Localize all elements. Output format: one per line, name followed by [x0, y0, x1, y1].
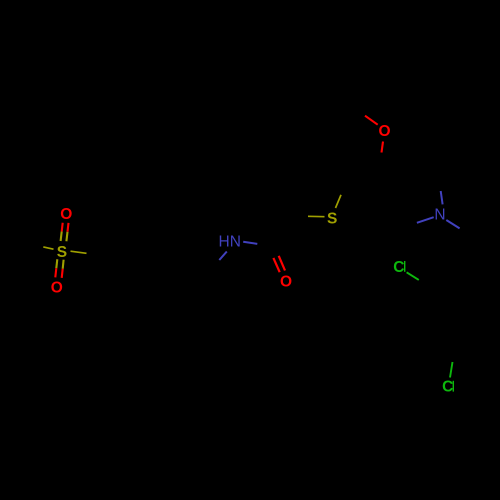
svg-text:S: S — [57, 244, 67, 261]
bond N2 up (blue half) — [441, 191, 443, 204]
svg-text:O: O — [280, 273, 292, 290]
bond Cl2-C (green half, up) — [450, 362, 453, 378]
svg-text:C: C — [393, 259, 404, 276]
bond S2-CH2 (olive half, horizontal) — [308, 215, 325, 217]
bond O4-C ring (red half, down) — [382, 142, 384, 153]
svg-text:C: C — [442, 379, 453, 396]
svg-text:O: O — [379, 123, 391, 140]
bond N2 down-left (blue half) — [417, 217, 434, 223]
atom Cl2 l stem — [452, 381, 454, 392]
svg-text:N: N — [434, 206, 445, 223]
bond S2-C ring (olive half, up-right) — [336, 195, 342, 208]
double bond S1=O2 line 1 olive half — [56, 259, 57, 268]
bond O4-CH3 (red half, up-left) — [365, 116, 378, 125]
double bond S1=O1 line 1 red half — [62, 223, 63, 232]
double bond S1=O2 line 2 red half — [62, 269, 63, 278]
double bond C=O3 line 2 red half — [279, 256, 285, 271]
svg-text:O: O — [60, 206, 72, 223]
bond Cl1-C (green half, down-right) — [407, 272, 419, 280]
bond N1-CH2 benzyl (blue half) — [219, 252, 227, 261]
double bond S1=O1 line 2 olive half — [66, 232, 67, 242]
double bond S1=O2 line 2 olive half — [62, 260, 65, 269]
double bond S1=O2 line 1 red half — [55, 268, 56, 277]
bond N2 down-right (blue half) — [446, 220, 459, 228]
bond S1-CH3 (methyl, olive half) — [43, 247, 53, 249]
svg-text:HN: HN — [219, 233, 241, 250]
svg-text:O: O — [51, 279, 63, 296]
atom Cl1 l stem — [404, 261, 406, 272]
double bond C=O3 line 1 red half — [273, 258, 279, 272]
double bond S1=O1 line 1 olive half — [61, 232, 62, 242]
bond S1-Ar (to ring, olive half) — [71, 251, 87, 253]
bond N1-C(=O) (blue half) — [243, 242, 257, 244]
double bond S1=O1 line 2 red half — [68, 223, 69, 232]
svg-text:S: S — [327, 211, 337, 228]
